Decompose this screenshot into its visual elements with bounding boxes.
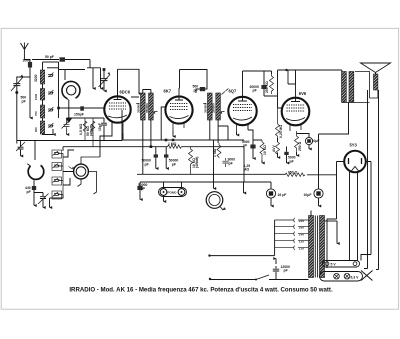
svg-text:750: 750 (34, 111, 38, 116)
svg-text:350000: 350000 (203, 103, 207, 113)
capacitor 50000pF (c) to ground (137, 186, 142, 190)
wire 5Y3 right (361, 162, 371, 261)
svg-text:3200: 3200 (34, 74, 38, 82)
svg-text:6,3 V: 6,3 V (351, 276, 360, 280)
grid arrows above tube V1 (92, 68, 94, 89)
variable capacitor C3 (padder) (34, 193, 49, 208)
svg-text:350000: 350000 (145, 103, 149, 113)
AVC bus wire (17, 140, 122, 142)
svg-text:pF: pF (229, 161, 233, 165)
junction dot antenna cap (15, 91, 18, 94)
speaker voice coil (374, 74, 378, 90)
pilot lamp b (344, 273, 350, 279)
ground symbol (solid) (66, 119, 72, 124)
svg-text:50 pF: 50 pF (45, 55, 54, 59)
capacitor 15pF vertical (101, 118, 107, 140)
arrows into O-coil (69, 167, 73, 170)
variable capacitor C2 (osc tuning) (99, 70, 111, 88)
trimmer switch contacts column 1 (48, 73, 54, 128)
resistor R6 650 ohm in ground bus (285, 173, 305, 176)
wire OT primary bottom down (B+ from rectifier) (319, 103, 349, 189)
band switch assembly: oscillator C-coil (28, 165, 44, 179)
tube V4 6V6 envelope (282, 70, 310, 131)
svg-text:AVV: AVV (272, 145, 276, 152)
capacitor 10uF electrolytic (V4 cathode) (305, 137, 312, 144)
wire band coils spine (42, 62, 44, 135)
svg-text:6V6: 6V6 (299, 91, 307, 96)
wires 5Y3 cathode down (350, 172, 358, 261)
wire coil top to 50pF line (32, 59, 59, 61)
ground 16uF (270, 201, 272, 206)
switch column wiring (59, 154, 64, 195)
svg-text:350000: 350000 (137, 103, 141, 113)
oscillator coil L3 (open circle) (62, 81, 80, 98)
bus L2 with resistor 1Mohm (63, 147, 168, 151)
band coil L2c (40, 105, 44, 118)
resistor R1 0,5 Mohm vertical (84, 118, 86, 140)
dial lamp X (361, 271, 373, 281)
svg-text:pF: pF (290, 159, 294, 163)
capacitor 50000pF (a) (155, 147, 157, 155)
tuning gang section ground at x66 (62, 118, 72, 135)
band column ground at x53 (43, 129, 54, 135)
band coil L2a (3200) (40, 70, 44, 84)
IF transformer T2 winding b (216, 93, 221, 120)
grid loop above V4 / B+ line to OT (278, 70, 342, 84)
svg-text:5Y3: 5Y3 (350, 142, 358, 147)
capacitor 50pF (60, 57, 66, 61)
capacitor 500pF (IFT2 top) (200, 87, 205, 91)
svg-text:15pF: 15pF (98, 123, 102, 131)
tube V1 6DC6 envelope (104, 85, 130, 133)
resistor R10 0,25 Mohm vertical (V4 grid leak) (276, 108, 280, 139)
wire coupling to V4 grid (264, 96, 282, 108)
svg-text:5 V: 5 V (331, 263, 337, 267)
IF T1 tuning arrows (136, 104, 157, 112)
capacitor 16uF electrolytic (filter) (266, 189, 275, 198)
audio bus y182 (140, 181, 244, 183)
rectifier tube V5 5Y3 (344, 151, 366, 173)
capacitor 20000pF (coupling) (261, 85, 266, 89)
wire tube V1 cathode down (100, 122, 123, 158)
ground 50000pF b (165, 158, 167, 169)
wire grid line y108 (59, 107, 105, 109)
grid feed loop above V2 (180, 70, 208, 89)
capacitor 150pF (80, 106, 84, 110)
wire audio bus to 16uF (244, 181, 271, 183)
grid loop above V3 (243, 71, 265, 88)
ground 50000pF a (155, 158, 157, 169)
svg-text:pF: pF (172, 162, 176, 166)
grid stopper arrow x243.5 (243, 182, 245, 193)
capacitor 5000pF (250, 145, 255, 149)
wire top bus left (43, 61, 59, 63)
wire pot wiper feed x213.5 (213, 140, 215, 184)
capacitor 10uF electrolytic (filter 2) (314, 189, 323, 198)
tube V2 6K7 envelope (165, 88, 192, 131)
svg-text:6DC6: 6DC6 (120, 90, 131, 95)
band coil L2d (40, 121, 44, 134)
tap selector spine (274, 220, 276, 256)
svg-text:10μF: 10μF (312, 139, 320, 143)
resistor R5 10 Kohm 4watt vertical (189, 147, 193, 174)
svg-text:IRRADIO - Mod. AK 16 - Media f: IRRADIO - Mod. AK 16 - Media frequenza 4… (69, 287, 333, 294)
svg-text:220: 220 (299, 219, 304, 223)
resistor R2 50 Kohm vertical (92, 118, 94, 147)
svg-text:(4Watt): (4Watt) (195, 157, 199, 168)
mains switch line (210, 279, 309, 281)
wire osc var cap down (103, 86, 105, 91)
svg-text:FONO: FONO (168, 191, 178, 195)
wire V2 cathode to bus L1 (172, 131, 174, 137)
wire PT primary top (310, 211, 312, 216)
filament winding box 5V (323, 261, 360, 268)
rectifier feed arrow (336, 221, 338, 244)
variable capacitor C1 tuning (antenna) (11, 77, 23, 91)
svg-text:MΩ: MΩ (244, 168, 250, 172)
voltage selector taps (275, 218, 309, 250)
AVC capacitor at left (16, 141, 25, 157)
resistor R8 1 Mohm vertical (V3 grid) (217, 143, 221, 158)
svg-text:pF: pF (253, 89, 257, 93)
wire tube2 grid return (161, 107, 166, 140)
speaker frame wires (342, 72, 378, 103)
svg-text:6Q7: 6Q7 (229, 88, 237, 93)
wire antenna to coil (24, 60, 30, 119)
osc coil lead to ground (68, 100, 70, 118)
junction dot B+ (285, 69, 287, 71)
svg-text:0,5 MΩ: 0,5 MΩ (79, 124, 83, 135)
svg-text:1500: 1500 (34, 93, 38, 100)
svg-text:10 KΩ: 10 KΩ (263, 145, 267, 155)
svg-text:110: 110 (299, 247, 304, 251)
capacitor 50000pF (b) (165, 147, 167, 155)
junction dot L2/IFT1 (150, 145, 153, 148)
diode contact ticks V3 (222, 89, 229, 95)
svg-text:pF: pF (284, 269, 288, 273)
wire IFT2 bottom connections (210, 120, 228, 143)
svg-text:250: 250 (34, 127, 38, 132)
wire under C-coil (33, 180, 35, 186)
wire O-coil connections (78, 157, 101, 194)
IF transformer T1 winding b (149, 93, 154, 120)
filament winding box 6,3V with pilot lamps (320, 272, 363, 282)
svg-text:10μF: 10μF (304, 193, 312, 197)
svg-text:6K7: 6K7 (164, 88, 172, 93)
IF transformer T2 winding a (208, 93, 213, 120)
oscillator padder coil (double circle) (74, 164, 89, 179)
svg-text:1 MΩ: 1 MΩ (168, 142, 177, 146)
svg-text:250 KΩ: 250 KΩ (265, 81, 269, 93)
pilot lamp a (334, 273, 340, 279)
switch blade (256, 275, 269, 280)
wire vertical x58.5 (58, 62, 60, 118)
switch column ground (50, 195, 64, 208)
junction blob L1 (165, 139, 168, 142)
junction dot top bus (103, 68, 106, 71)
power transformer primary winding (309, 216, 314, 278)
mains line to selector (210, 255, 275, 257)
wire x122 tube1 down (121, 110, 123, 140)
resistor R11 AVV vertical (276, 142, 280, 154)
svg-text:0,25 MΩ: 0,25 MΩ (279, 125, 283, 138)
IF transformer T1 winding a (141, 93, 146, 120)
selector arrow (275, 259, 277, 265)
V3 plate wire to 20000pF (247, 125, 249, 131)
svg-text:125: 125 (299, 240, 304, 244)
svg-text:(4Watt): (4Watt) (89, 125, 93, 136)
wire PT HV to arrow (325, 220, 338, 222)
capacitor 12000pF (mains) (273, 266, 279, 279)
svg-text:1 MΩ: 1 MΩ (213, 148, 217, 157)
wire var cap down to AVC bus (16, 90, 18, 144)
antenna coil L1 1000 (28, 62, 32, 68)
svg-text:250 Ω: 250 Ω (298, 141, 302, 151)
antenna (21, 43, 29, 61)
wire V3 cathode ground (236, 132, 238, 135)
wire IFT1 top to V1 plate (131, 90, 151, 98)
bus L1 (AVC return) y140 (122, 139, 244, 141)
speaker field wires down right (368, 90, 379, 270)
wire IFT1 bottom connections (143, 120, 151, 174)
potentiometer volume (206, 184, 223, 210)
wire bus to 16uF (243, 147, 245, 182)
jack FONO (159, 182, 187, 202)
resistor R4 1 Mohm horizontal (168, 145, 182, 148)
junction dot grid line (57, 107, 60, 110)
switch contact trimmers middle column (52, 150, 62, 199)
svg-text:160: 160 (299, 226, 304, 230)
wire vertical x65 osc (64, 70, 66, 81)
IF T2 tuning arrows (203, 104, 224, 112)
power transformer core (315, 216, 317, 278)
svg-text:650 Ω: 650 Ω (288, 171, 298, 175)
resistor R9 250 Kohm vertical (270, 74, 274, 94)
grid feed loop above V1 (118, 69, 140, 96)
wire antenna branch down (17, 77, 30, 80)
wire AVC drop to C-coil (34, 141, 36, 161)
wire top bus y68 (47, 67, 59, 69)
svg-text:pF: pF (194, 89, 198, 93)
top bus wire y69.5 (59, 69, 86, 71)
output transformer secondary winding (349, 72, 354, 103)
junction dot tube2 cathode (172, 139, 175, 142)
resistor R7 10 Kohm vertical (260, 140, 264, 160)
svg-text:16 μF: 16 μF (278, 193, 287, 197)
output transformer primary winding (342, 72, 347, 103)
svg-text:pF: pF (243, 144, 247, 148)
capacitor 440pF (32, 186, 36, 190)
svg-text:pF: pF (22, 99, 26, 103)
wire IFT2 sec bottom to V3 grid (210, 126, 228, 140)
svg-text:1000: 1000 (23, 59, 31, 63)
capacitor 3000pF (223, 158, 229, 167)
junction dot IFT1 top (139, 93, 141, 95)
capacitor 5000pF (b) (286, 147, 288, 152)
power transformer secondary winding (320, 216, 325, 278)
tube V3 6Q7 envelope (228, 88, 256, 132)
wire B+ bus to 5Y3 left (327, 162, 344, 269)
svg-text:350000: 350000 (212, 103, 216, 113)
wire r1r2 top (67, 117, 105, 119)
svg-text:pF: pF (141, 187, 145, 191)
svg-text:150pF: 150pF (74, 113, 84, 117)
svg-text:pF: pF (145, 162, 149, 166)
V4 cathode: resistor R12 250 ohm (295, 131, 299, 152)
band coil L2b (40, 89, 44, 101)
wire 50pF to grid loop (65, 59, 90, 61)
speaker cone (361, 63, 391, 73)
svg-text:pF: pF (27, 190, 31, 194)
svg-text:140: 140 (299, 233, 304, 237)
ground bus y174 (137, 173, 285, 175)
